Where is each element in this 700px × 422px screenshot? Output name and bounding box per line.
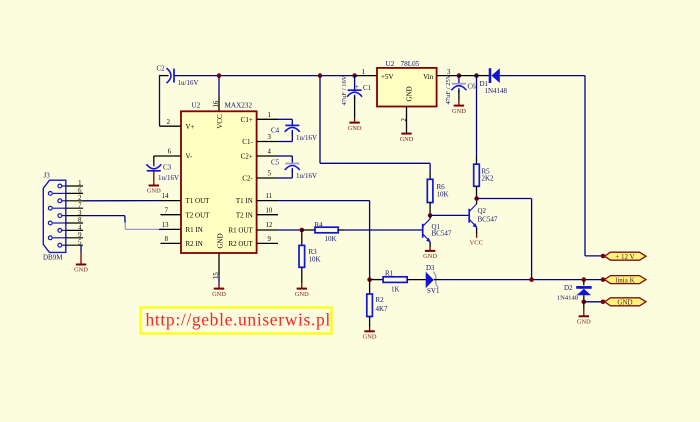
svg-text:10K: 10K [309, 255, 321, 263]
diode D2 1N4148 [557, 284, 592, 302]
wire pin12 R1 OUT net [278, 229, 302, 231]
ground 78L05 [400, 134, 414, 143]
pin number 1 (78L05) [362, 69, 365, 76]
capacitor C6 [445, 74, 476, 104]
wire 78L05 pin3 stub [437, 75, 459, 77]
net tag linia K [605, 276, 647, 285]
svg-text:5: 5 [268, 171, 272, 178]
wire J3 pin5 to ground [80, 245, 82, 264]
wire pin5 stub [257, 177, 278, 179]
wire +12V drop [585, 76, 603, 256]
svg-text:GND: GND [74, 267, 88, 274]
pin number 1 [268, 112, 271, 119]
wire D2 upper lead [583, 280, 585, 286]
power VCC [470, 239, 484, 246]
svg-text:2K2: 2K2 [482, 175, 495, 183]
svg-text:C2: C2 [157, 65, 166, 73]
wire R3 upper lead [301, 230, 303, 245]
wire pin9 stub [257, 242, 278, 244]
wire C3 lower lead [153, 172, 155, 186]
svg-text:GND: GND [212, 291, 226, 298]
wire C2 left lead down to V+ level [159, 75, 161, 126]
pin number 10 [266, 207, 273, 214]
svg-text:VCC: VCC [216, 114, 224, 129]
svg-text:14: 14 [162, 193, 169, 200]
ground Q1 [423, 251, 437, 260]
svg-text:T1 OUT: T1 OUT [186, 197, 211, 205]
wire top rail to D1 [459, 75, 490, 77]
wire Q2 collector to linia K [477, 199, 532, 280]
wire C1 lower lead [354, 97, 356, 123]
svg-text:1: 1 [268, 112, 271, 119]
svg-text:+: + [355, 82, 359, 91]
wire 78L05 pin1 stub [355, 75, 377, 77]
svg-text:T2 IN: T2 IN [236, 211, 253, 219]
wire pin14 stub [161, 200, 182, 202]
wire C1 upper lead [354, 76, 356, 91]
pin number 12 [266, 222, 273, 229]
svg-text:47uF / 16V: 47uF / 16V [341, 75, 348, 105]
svg-text:Q2: Q2 [478, 207, 487, 215]
wire J3 pin2 to T1 OUT [83, 200, 161, 202]
svg-text:8: 8 [78, 217, 82, 224]
node junction C6 tap [457, 73, 462, 78]
resistor R4 10K [315, 221, 339, 243]
svg-text:3: 3 [268, 134, 272, 141]
wire D2 lower lead [583, 295, 585, 302]
wire C6 lower lead [458, 90, 460, 105]
pin number 13 [162, 222, 169, 229]
wire D3 to linia K tag [434, 279, 603, 281]
svg-text:C4: C4 [271, 127, 280, 135]
svg-text:VCC: VCC [470, 239, 484, 246]
wire Q1 collector to Q2 base [430, 214, 469, 216]
svg-text:C2+: C2+ [241, 153, 253, 161]
capacitor C5 [271, 159, 317, 180]
svg-text:GND: GND [295, 291, 309, 298]
wire C6 upper lead [458, 76, 460, 84]
pin number 5 [268, 171, 272, 178]
svg-text:T2 OUT: T2 OUT [186, 211, 211, 219]
node junction D2 cathode [582, 300, 587, 305]
svg-text:9: 9 [268, 236, 272, 243]
svg-text:R1 OUT: R1 OUT [228, 227, 253, 235]
wire C3 branch [153, 156, 155, 163]
wire to GND tag [584, 301, 603, 303]
svg-text:GND: GND [423, 253, 437, 260]
wire pin4 to C5 [278, 156, 292, 164]
wire R6 branch: down, right, down [320, 76, 430, 180]
svg-text:1N4148: 1N4148 [485, 87, 508, 95]
connector J3 DB9M body [43, 172, 66, 262]
wire R2 lower lead [369, 317, 371, 332]
svg-text:3: 3 [78, 210, 82, 217]
svg-text:SV1: SV1 [427, 287, 440, 295]
svg-text:GND: GND [348, 125, 362, 132]
svg-text:2: 2 [78, 195, 82, 202]
svg-text:DB9M: DB9M [43, 253, 63, 261]
svg-text:4: 4 [268, 149, 272, 156]
svg-text:MAX232: MAX232 [225, 102, 253, 110]
node junction C1 tap [352, 73, 357, 78]
svg-text:GND: GND [452, 108, 466, 115]
ground C3 [147, 186, 161, 195]
wire pin11 stub [257, 200, 278, 202]
svg-text:C1: C1 [363, 84, 372, 92]
svg-text:10K: 10K [437, 191, 449, 199]
svg-text:R4: R4 [315, 221, 324, 229]
wire pin15 GND lead [218, 253, 220, 288]
wire C4 to pin3 [278, 132, 292, 142]
svg-text:16: 16 [213, 100, 220, 107]
svg-text:1: 1 [78, 180, 81, 187]
svg-text:C5: C5 [271, 159, 280, 167]
svg-text:6: 6 [78, 188, 82, 195]
resistor R3 10K [299, 245, 321, 267]
node junction D2 branch [582, 277, 587, 282]
ground C1 [348, 123, 362, 132]
resistor R6 10K [427, 179, 448, 202]
wire R5 upper lead [476, 76, 478, 165]
svg-text:6: 6 [168, 149, 172, 156]
svg-text:Vin: Vin [423, 73, 434, 81]
wire R4 to Q1 base [338, 229, 423, 231]
wire C5 to pin5 [278, 170, 292, 178]
svg-text:2: 2 [401, 118, 408, 122]
capacitor C3 [146, 162, 179, 182]
pin number 3 (78L05) [447, 69, 451, 76]
wire pin4 stub [257, 155, 278, 157]
wire pin7 stub [161, 214, 182, 216]
connector J3 pin stubs and numbers [66, 180, 83, 246]
ground C6 [452, 106, 466, 115]
svg-text:R2 IN: R2 IN [186, 240, 203, 248]
node junction GND tag [601, 300, 606, 305]
svg-text:C1+: C1+ [241, 116, 253, 124]
svg-text:+ 12 V: + 12 V [615, 253, 634, 261]
svg-text:2: 2 [167, 119, 171, 126]
svg-text:R2: R2 [376, 296, 385, 304]
svg-text:BC547: BC547 [478, 216, 498, 224]
wire to R1 [370, 279, 384, 281]
net tag +12 V [605, 252, 647, 261]
watermark URL box [141, 308, 332, 334]
IC U2 MAX232 body [181, 102, 257, 254]
wire pin10 stub [257, 214, 278, 216]
svg-text:1u/16V: 1u/16V [296, 172, 317, 180]
net tag GND [605, 298, 647, 307]
wire 78L05 pin2 GND lead [406, 107, 408, 134]
resistor R5 2K2 [474, 164, 494, 186]
resistor R1 1K [383, 269, 407, 293]
resistor R2 4K7 [367, 294, 388, 317]
svg-text:7: 7 [78, 202, 82, 209]
transistor Q1 BC547 [423, 215, 452, 242]
svg-text:GND: GND [363, 334, 377, 341]
transistor Q2 BC547 [469, 199, 498, 228]
node junction linia K tag [601, 277, 606, 282]
capacitor C2 [157, 65, 199, 88]
capacitor C4 [271, 125, 317, 141]
pin number 11 [266, 193, 273, 200]
wire D2 to ground symbol [583, 302, 585, 316]
svg-text:D3: D3 [426, 264, 435, 272]
svg-text:1K: 1K [391, 285, 400, 293]
wire top rail left segment from C2 corner [160, 75, 355, 77]
ground J3 pin5 [74, 265, 88, 274]
wire J3 pin3 to R1 IN jog [83, 216, 163, 230]
svg-text:GND: GND [577, 319, 591, 326]
svg-text:GND: GND [617, 299, 632, 307]
wire R2 upper lead [369, 280, 371, 294]
pin number 15 [213, 272, 220, 279]
svg-text:C2-: C2- [242, 175, 253, 183]
wire R1 to D3 [407, 279, 426, 281]
pin number 14 [162, 193, 169, 200]
svg-text:V+: V+ [186, 123, 195, 131]
wire pin2 V+ stub [160, 125, 182, 127]
svg-text:9: 9 [78, 232, 82, 239]
svg-text:8: 8 [165, 236, 169, 243]
svg-text:T1 IN: T1 IN [236, 197, 253, 205]
wire Q1 emitter to ground [429, 242, 431, 251]
wire T1 IN net [278, 201, 370, 280]
svg-text:1u/16V: 1u/16V [178, 79, 199, 87]
svg-text:R1 IN: R1 IN [186, 226, 203, 234]
svg-text:C6: C6 [468, 82, 477, 90]
svg-text:http://geble.uniserwis.pl: http://geble.uniserwis.pl [146, 310, 331, 330]
ground R2 [363, 331, 377, 340]
wire Q2 emitter to VCC [476, 227, 478, 238]
svg-text:10: 10 [266, 207, 273, 214]
ground MAX232 pin15 [212, 289, 226, 298]
node junction R3/R4 [300, 228, 305, 233]
wire R3 lower lead [301, 267, 303, 288]
pin number 8 [165, 236, 169, 243]
node junction R1/R2 [367, 277, 372, 282]
wire R5 lower lead [476, 186, 478, 198]
svg-text:13: 13 [162, 222, 169, 229]
node junction Q1 collector [428, 213, 433, 218]
svg-text:R1: R1 [385, 269, 394, 277]
wire pin12 stub [257, 229, 278, 231]
wire pin13 stub [161, 228, 182, 230]
svg-text:1u/16V: 1u/16V [296, 134, 317, 142]
wire pin6 V- stub [154, 155, 181, 157]
wire pin1 stub [257, 118, 278, 120]
pin number 2 (78L05) [401, 118, 408, 122]
diode D1 1N4148 [480, 68, 508, 95]
svg-text:1N4148: 1N4148 [557, 294, 579, 301]
node junction Q2 collector [474, 196, 479, 201]
svg-text:4: 4 [78, 225, 82, 232]
node junction Q2 branch on linia K [529, 277, 534, 282]
svg-text:1u/16V: 1u/16V [158, 174, 179, 182]
svg-text:7: 7 [165, 207, 169, 214]
node junction +12V tag [601, 254, 606, 259]
svg-text:GND: GND [405, 86, 413, 101]
pin number 6 [168, 149, 172, 156]
svg-text:linia K: linia K [615, 276, 634, 284]
pin number 4 [268, 149, 272, 156]
wire D1 anode to right rail [500, 75, 585, 77]
pin number 16 [213, 100, 220, 107]
wire pin8 stub [161, 242, 182, 244]
node junction R5 branch [474, 73, 479, 78]
wire pin3 stub [257, 141, 278, 143]
svg-text:V-: V- [186, 153, 193, 161]
pin number 3 [268, 134, 272, 141]
wire R6 lower lead [429, 203, 431, 216]
wire MAX232 pin16 drop [218, 76, 220, 111]
svg-text:C1-: C1- [242, 138, 253, 146]
svg-text:J3: J3 [44, 172, 51, 180]
wire pin1 to C4 [278, 119, 292, 125]
svg-text:BC547: BC547 [432, 229, 452, 237]
ground D2 [577, 316, 591, 325]
wire to R4 [302, 229, 315, 231]
svg-text:GND: GND [216, 233, 224, 248]
svg-text:47uF / 25V: 47uF / 25V [445, 74, 452, 104]
svg-text:U2: U2 [192, 102, 201, 110]
regulator U2 78L05 body [377, 60, 437, 107]
svg-text:10K: 10K [325, 235, 337, 243]
node junction VCC drop [217, 73, 222, 78]
svg-text:U2: U2 [386, 60, 395, 68]
ground R3 [295, 289, 309, 298]
svg-text:15: 15 [213, 272, 220, 279]
pin number 7 [165, 207, 169, 214]
svg-text:GND: GND [400, 136, 414, 143]
svg-text:D2: D2 [564, 284, 573, 292]
diode D3 SV1 zener [426, 264, 440, 295]
svg-text:1: 1 [362, 69, 365, 76]
capacitor C1 [341, 75, 372, 105]
svg-text:C3: C3 [163, 163, 172, 171]
svg-text:12: 12 [266, 222, 273, 229]
svg-text:R2 OUT: R2 OUT [228, 240, 253, 248]
pin number 9 [268, 236, 272, 243]
pin number 2 [167, 119, 171, 126]
svg-text:11: 11 [266, 193, 273, 200]
svg-text:78L05: 78L05 [401, 60, 420, 68]
node junction R6 branch [318, 73, 323, 78]
svg-text:4K7: 4K7 [376, 305, 389, 313]
svg-text:GND: GND [147, 188, 161, 195]
svg-text:+5V: +5V [381, 73, 394, 81]
connector J3 pins [48, 184, 65, 247]
